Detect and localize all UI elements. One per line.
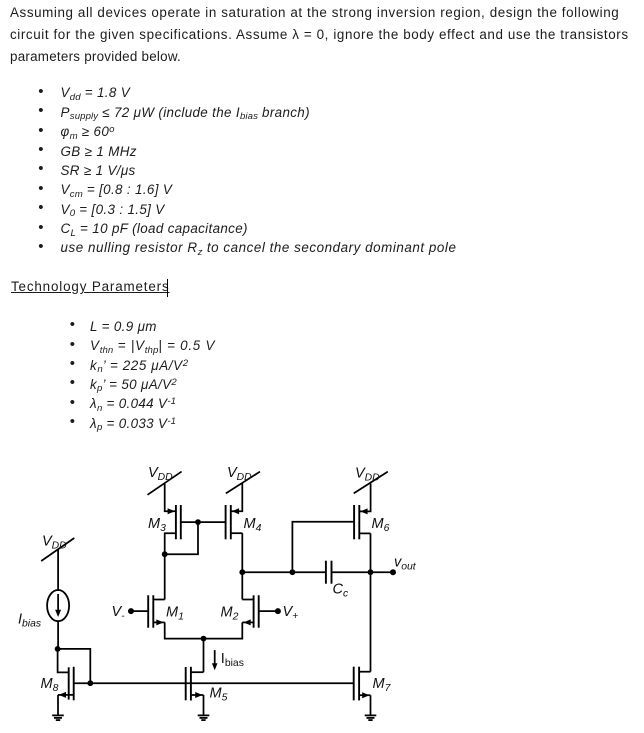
svg-text:M8: M8 [41, 676, 59, 694]
transistor M2 [221, 595, 259, 627]
svg-text:M1: M1 [166, 604, 184, 622]
wire node A to Cc [242, 571, 325, 573]
svg-text:M4: M4 [244, 516, 262, 534]
svg-text:Ibias: Ibias [221, 651, 244, 669]
wire VDD to M3 source [165, 484, 176, 511]
wire M5 drain to tail node [203, 639, 205, 673]
power VDD M4 [226, 465, 260, 493]
wire M2 source to tail [204, 622, 243, 638]
wire Cc to output node [332, 571, 370, 573]
transistor M8 [41, 667, 91, 715]
wire output node to terminal [371, 571, 394, 573]
transistor M7 [354, 667, 392, 716]
wire branch to M6 gate [292, 522, 354, 572]
wire M8 drain to M5 and M7 gates [90, 682, 353, 684]
wire M3 gate to M4 gate [181, 521, 226, 523]
svg-text:VDD: VDD [148, 465, 173, 483]
svg-text:Ibias: Ibias [18, 612, 41, 630]
terminal vout [390, 555, 417, 576]
capacitor Cc [326, 561, 349, 600]
ground M8 [52, 715, 64, 720]
ground M7 [365, 715, 377, 720]
ground M5 [198, 715, 210, 720]
terminal V- [112, 604, 148, 622]
svg-text:M7: M7 [373, 676, 392, 694]
wire M3 diode connection [165, 522, 198, 554]
wire M4 drain to node A [241, 533, 243, 572]
svg-text:M3: M3 [148, 516, 166, 534]
transistor M4 [226, 505, 262, 539]
transistor M1 [148, 595, 184, 627]
svg-text:Cc: Cc [333, 582, 349, 600]
power VDD left [41, 534, 74, 562]
wire M1 drain to mirror node [164, 554, 166, 599]
transistor M3 [148, 505, 181, 554]
wire current source to bias node [57, 621, 59, 649]
node M8 drain junction [87, 680, 93, 686]
transistor M6 [354, 505, 389, 539]
node bias junction [55, 646, 61, 652]
svg-text:M2: M2 [221, 604, 239, 622]
transistor M5 [186, 667, 228, 715]
node mirror gate junction [195, 519, 201, 525]
wire bias node to M8 gate [58, 649, 68, 673]
svg-text:VDD: VDD [227, 465, 252, 483]
svg-text:V-: V- [112, 604, 126, 622]
wire M2 drain to node A [241, 572, 243, 599]
svg-text:M6: M6 [372, 516, 390, 534]
power VDD M6 [354, 466, 388, 494]
node M3 drain junction [162, 551, 168, 557]
wire VDD to current source [57, 550, 59, 591]
node A junction [239, 569, 245, 575]
wire VDD to M6 source [359, 484, 370, 512]
wire M1 source to tail [165, 622, 204, 638]
svg-text:vout: vout [394, 555, 417, 573]
wire bias node to M8 drain [58, 649, 91, 683]
svg-text:M5: M5 [210, 686, 228, 704]
wire VDD to M4 source [231, 483, 243, 511]
wire M6 drain to output node [370, 533, 372, 572]
wire M7 drain to output node [370, 572, 372, 672]
svg-text:V+: V+ [283, 604, 299, 622]
terminal V+ [259, 604, 299, 622]
arrow tail current Ibias [212, 650, 244, 670]
node tail junction [201, 636, 207, 642]
node M6 gate branch junction [290, 569, 296, 575]
svg-text:VDD: VDD [355, 466, 380, 484]
node output junction [368, 569, 374, 575]
power VDD M3 [148, 465, 182, 495]
current source Ibias [18, 590, 69, 630]
svg-text:VDD: VDD [42, 534, 67, 552]
